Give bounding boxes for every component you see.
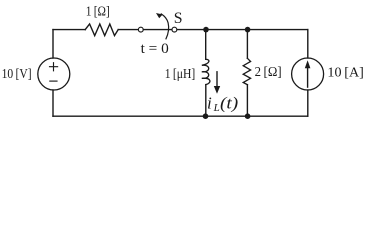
svg-text:(t): (t) (220, 94, 239, 113)
svg-text:L: L (213, 102, 220, 114)
svg-text:1 [Ω]: 1 [Ω] (86, 5, 110, 20)
svg-text:10 [A]: 10 [A] (327, 66, 364, 81)
svg-text:2 [Ω]: 2 [Ω] (255, 65, 282, 80)
svg-text:S: S (174, 10, 183, 27)
svg-text:10 [V]: 10 [V] (2, 66, 32, 81)
svg-text:1 [μH]: 1 [μH] (165, 67, 196, 82)
svg-text:t = 0: t = 0 (141, 41, 169, 57)
svg-text:i: i (207, 94, 212, 113)
